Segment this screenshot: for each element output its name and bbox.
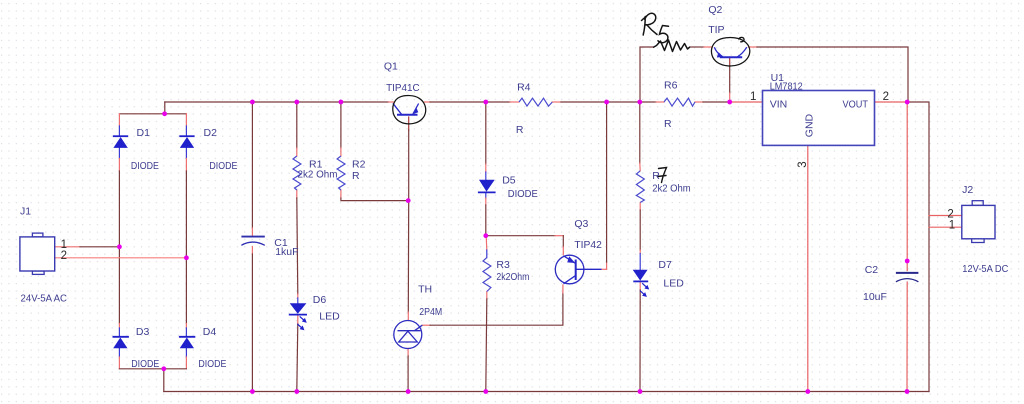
junction node D5-R3-Q3 xyxy=(483,233,488,238)
hand-written label R5 xyxy=(642,13,669,42)
junction node R5/R6/R7 xyxy=(637,100,642,105)
svg-text:R2: R2 xyxy=(352,159,366,171)
svg-text:J1: J1 xyxy=(20,206,31,218)
svg-text:2: 2 xyxy=(883,91,889,103)
wire Q3 base to rail node x=606.6 xyxy=(602,102,607,269)
hand-written digit 7 over R7 label xyxy=(658,168,667,183)
capacitor C1 xyxy=(241,237,264,246)
LED D7 xyxy=(633,270,649,297)
IC U1 LM7812 box xyxy=(763,91,875,146)
junction node bridge bottom xyxy=(161,366,166,371)
junction node rail R3 xyxy=(483,389,488,394)
junction node C2 top xyxy=(905,259,910,264)
svg-text:D2: D2 xyxy=(204,127,218,139)
wire main horizontal rail y=102 xyxy=(165,101,730,103)
junction node Q3 base column xyxy=(604,100,609,105)
svg-text:D4: D4 xyxy=(203,326,217,338)
svg-text:2k2 Ohm: 2k2 Ohm xyxy=(298,169,338,181)
resistor R3 xyxy=(483,258,491,292)
wire D1 column x=119.4 xyxy=(118,114,120,369)
svg-text:TIP42: TIP42 xyxy=(574,239,602,251)
junction node R1 top xyxy=(294,100,299,105)
svg-text:J2: J2 xyxy=(962,184,973,196)
hand-drawn resistor R5 sketch xyxy=(653,40,690,52)
junction node rail C1 xyxy=(250,389,255,394)
svg-text:R: R xyxy=(352,170,360,182)
junction node rail TH xyxy=(406,389,411,394)
diode D3 xyxy=(113,337,129,348)
wire D5 column x=485.8 xyxy=(485,102,487,236)
wire R7/D7 column x=639.8 xyxy=(639,102,641,392)
svg-text:LM7812: LM7812 xyxy=(770,81,803,93)
svg-text:R4: R4 xyxy=(517,82,531,94)
svg-text:TIP41C: TIP41C xyxy=(386,82,420,94)
wire U1 pin1 red xyxy=(730,101,763,103)
svg-text:2k2 Ohm: 2k2 Ohm xyxy=(652,182,691,194)
junction node rail C2 xyxy=(905,389,910,394)
svg-text:1kuF: 1kuF xyxy=(275,246,298,258)
svg-text:R: R xyxy=(516,124,524,136)
svg-text:D1: D1 xyxy=(137,127,151,139)
svg-text:R: R xyxy=(664,118,672,130)
junction node C1 top xyxy=(250,100,255,105)
svg-text:2: 2 xyxy=(61,250,67,262)
wire bridge bottom bar y=368.8 with drop to ground rail xyxy=(119,369,186,392)
svg-text:DIODE: DIODE xyxy=(508,188,538,200)
svg-text:TIP: TIP xyxy=(708,24,724,36)
svg-text:Q1: Q1 xyxy=(384,61,398,73)
wire U1 pin3 GND red to rail xyxy=(807,145,809,391)
diode D4 xyxy=(179,337,195,348)
connector J1 box xyxy=(20,233,55,274)
wire top-right rail from R5 corner to x908 corner xyxy=(640,47,908,102)
wire R2 column x=340.9 and link to Q1 base xyxy=(341,102,408,201)
svg-text:1: 1 xyxy=(750,91,756,103)
svg-text:2k2Ohm: 2k2Ohm xyxy=(496,271,529,283)
svg-text:DIODE: DIODE xyxy=(131,160,159,172)
svg-text:R: R xyxy=(652,170,660,182)
wire C2 column x=907.2 red xyxy=(906,102,908,392)
wire J2 pin2 xyxy=(929,215,962,217)
svg-text:DIODE: DIODE xyxy=(198,358,226,370)
wire TH cathode to rail xyxy=(407,348,409,391)
junction node rail D7 xyxy=(638,389,643,394)
wire bridge top bar y=113.8 with riser xyxy=(119,102,186,114)
svg-text:Q3: Q3 xyxy=(574,218,588,230)
svg-text:C2: C2 xyxy=(865,264,879,276)
svg-text:2P4M: 2P4M xyxy=(419,306,442,318)
resistor R4 xyxy=(519,98,552,106)
resistor R7 xyxy=(636,171,644,203)
svg-text:LED: LED xyxy=(663,278,684,290)
svg-text:GND: GND xyxy=(804,113,816,137)
junction node U1 out xyxy=(905,100,910,105)
wire J2 pin1 xyxy=(929,226,962,228)
svg-text:VIN: VIN xyxy=(770,99,788,111)
wire R1/D6 column x=296.8 xyxy=(297,102,298,392)
svg-text:VOUT: VOUT xyxy=(843,99,869,111)
junction node top bridge xyxy=(162,111,167,116)
svg-text:D3: D3 xyxy=(136,326,150,338)
svg-text:R3: R3 xyxy=(496,259,510,271)
transistor Q3 (blue circle PNP) xyxy=(555,255,601,284)
junction node R2-Q1 base xyxy=(406,198,411,203)
svg-text:R6: R6 xyxy=(664,80,678,92)
capacitor C2 xyxy=(896,273,919,282)
resistor R1 xyxy=(293,156,301,190)
junction node R2 top xyxy=(339,100,344,105)
svg-text:TH: TH xyxy=(418,284,432,296)
diode D5 xyxy=(478,180,496,193)
svg-text:DIODE: DIODE xyxy=(131,358,159,370)
wire junction x908 to x929 corner down xyxy=(907,102,929,392)
wire D5 node to Q3 emitter xyxy=(486,236,564,255)
svg-text:24V-5A AC: 24V-5A AC xyxy=(21,293,68,305)
svg-text:3: 3 xyxy=(797,161,809,167)
svg-text:LED: LED xyxy=(319,311,340,323)
resistor R2 xyxy=(337,156,345,190)
svg-text:DIODE: DIODE xyxy=(209,160,237,172)
junction node J1 pin2 xyxy=(184,255,189,260)
thyristor TH xyxy=(394,321,423,349)
transistor Q2 (blue symbol, hand-drawn black circle) xyxy=(711,37,749,66)
svg-text:10uF: 10uF xyxy=(863,291,887,303)
connector J2 box xyxy=(962,201,995,243)
svg-text:D7: D7 xyxy=(658,259,672,271)
LED D6 xyxy=(289,303,307,330)
svg-text:Q2: Q2 xyxy=(708,4,722,16)
junction node rail U1 gnd xyxy=(805,389,810,394)
wire Q1 base down to TH xyxy=(407,117,409,321)
wire J1 pin1 xyxy=(55,246,120,248)
svg-text:12V-5A DC: 12V-5A DC xyxy=(962,263,1008,275)
wire C1 column x=252.4 xyxy=(251,102,253,392)
svg-text:D5: D5 xyxy=(502,175,516,187)
junction node rail D6 xyxy=(294,389,299,394)
wire J1 pin2 xyxy=(55,257,187,259)
junction node J1 pin1 xyxy=(117,244,122,249)
junction node D5 top xyxy=(483,100,488,105)
wire TH gate to Q3 collector xyxy=(422,285,563,325)
wire R3 branch x=486.8 down to rail xyxy=(486,236,487,392)
diode D2 xyxy=(179,136,194,148)
resistor R6 xyxy=(664,98,695,106)
wire D2 column x=186.4 xyxy=(185,114,187,369)
junction node Q2 base xyxy=(727,100,732,105)
diode D1 xyxy=(113,136,128,148)
wire U1 pin2 red to junction xyxy=(875,101,908,103)
wire Q2 base down to node xyxy=(729,58,731,102)
transistor Q1 (blue symbol, hand-drawn black circle) xyxy=(393,96,426,124)
wire bottom rail y=391.5 xyxy=(164,391,929,393)
svg-text:1: 1 xyxy=(949,219,955,231)
svg-text:D6: D6 xyxy=(313,294,327,306)
